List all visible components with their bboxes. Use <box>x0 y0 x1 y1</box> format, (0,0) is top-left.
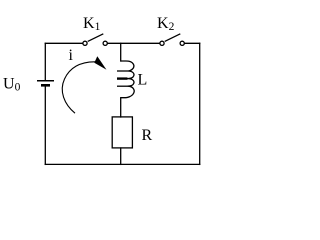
svg-text:i: i <box>69 47 74 64</box>
wire right vertical <box>199 43 201 164</box>
resistor R box <box>112 117 132 148</box>
wire middle branch lower <box>120 148 122 164</box>
wire middle branch upper <box>120 43 122 61</box>
inductor L coil <box>117 61 134 98</box>
current arrow arc <box>62 62 95 113</box>
wire top-left segment <box>45 42 82 44</box>
switch K2 <box>160 34 184 46</box>
switch K1 <box>83 34 107 46</box>
current arrowhead <box>94 56 106 70</box>
wire bottom horizontal <box>45 163 199 165</box>
wire K2-to-right segment <box>185 42 200 44</box>
wire middle branch between L and R <box>120 98 122 117</box>
wire K1-to-node segment <box>108 42 160 44</box>
wire left upper vertical <box>44 43 46 80</box>
svg-text:L: L <box>138 72 148 89</box>
wire left lower vertical <box>44 86 46 165</box>
svg-text:R: R <box>142 127 153 144</box>
battery U0 plates <box>37 81 54 86</box>
